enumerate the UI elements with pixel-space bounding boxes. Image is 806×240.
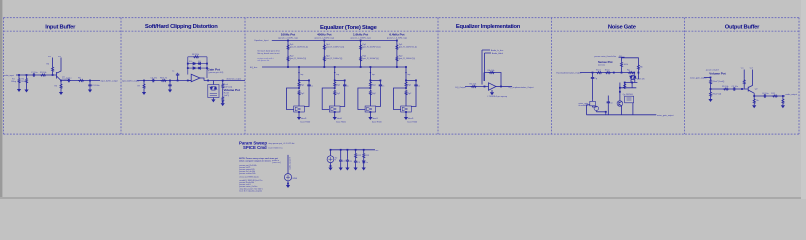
svg-text:distortion_output: distortion_output bbox=[226, 77, 241, 80]
svg-text:SINE: SINE bbox=[292, 178, 297, 180]
svg-text:EQ_Output: EQ_Output bbox=[456, 86, 466, 89]
svg-text:Equalizer (Tone) Stage: Equalizer (Tone) Stage bbox=[320, 25, 378, 31]
svg-text:.tran 0 50m 0 1u: .tran 0 50m 0 1u bbox=[268, 147, 283, 150]
svg-text:R3 10k: R3 10k bbox=[40, 72, 46, 74]
svg-text:audio_input: audio_input bbox=[4, 74, 15, 77]
svg-text:input_buffer_output: input_buffer_output bbox=[101, 79, 119, 82]
svg-text:{Rvol*(1-vol)}: {Rvol*(1-vol)} bbox=[713, 81, 725, 83]
svg-text:Input Buffer: Input Buffer bbox=[45, 24, 76, 30]
svg-text:SPICE Cmd: SPICE Cmd bbox=[243, 145, 267, 150]
svg-text:Audio_In_bus: Audio_In_bus bbox=[491, 49, 503, 52]
svg-text:Gain Pot: Gain Pot bbox=[208, 67, 220, 71]
svg-text:EQ_Implementation_Output: EQ_Implementation_Output bbox=[509, 86, 534, 89]
svg-text:100Hz Pot: 100Hz Pot bbox=[281, 32, 295, 36]
svg-text:Rfb 10k: Rfb 10k bbox=[488, 70, 495, 72]
svg-text:Rg: Rg bbox=[627, 69, 630, 71]
svg-text:1Meg: 1Meg bbox=[11, 81, 16, 83]
svg-text:Sense Pot: Sense Pot bbox=[598, 60, 613, 64]
svg-text:Rin 10k: Rin 10k bbox=[470, 83, 477, 85]
svg-text:100k: 100k bbox=[624, 64, 628, 66]
svg-text:(.wav src): (.wav src) bbox=[272, 162, 281, 164]
svg-text:C3 100n: C3 100n bbox=[92, 85, 100, 87]
svg-text:Dz: Dz bbox=[366, 162, 368, 164]
svg-text:D5 D6: D5 D6 bbox=[639, 78, 646, 80]
svg-text:Equalizer Implementation: Equalizer Implementation bbox=[456, 24, 521, 30]
svg-text:LT1001A 5-pin opamp: LT1001A 5-pin opamp bbox=[488, 95, 508, 98]
svg-text:R8 4.7k: R8 4.7k bbox=[160, 78, 167, 80]
svg-text:{vol*t}: {vol*t} bbox=[224, 94, 230, 97]
svg-text:audio_output: audio_output bbox=[785, 93, 797, 96]
svg-text:noise_gate_output: noise_gate_output bbox=[657, 114, 674, 117]
svg-text:{.param gain 0.8}: {.param gain 0.8} bbox=[208, 72, 224, 74]
svg-text:EQ_Implementation_Output: EQ_Implementation_Output bbox=[557, 71, 582, 74]
svg-text:vcc: vcc bbox=[741, 67, 744, 69]
svg-text:1.6kHz Pot: 1.6kHz Pot bbox=[353, 32, 368, 36]
svg-text:C2 1u: C2 1u bbox=[66, 78, 71, 80]
svg-text:.param sense=50k: .param sense=50k bbox=[239, 173, 256, 175]
svg-text:vcc: vcc bbox=[48, 56, 51, 58]
svg-text:Output Buffer: Output Buffer bbox=[725, 25, 760, 31]
svg-text:input_buffer_output: input_buffer_output bbox=[122, 79, 140, 82]
svg-text:{param_t_400Hz_tap}: {param_t_400Hz_tap} bbox=[315, 36, 335, 39]
svg-text:vcc: vcc bbox=[58, 56, 61, 58]
svg-text:Audio_fdbck: Audio_fdbck bbox=[492, 52, 503, 55]
svg-text:Soft/Hard Clipping Distortion: Soft/Hard Clipping Distortion bbox=[145, 24, 218, 30]
svg-text:{sense}: {sense} bbox=[598, 64, 605, 66]
svg-text:{Rvol*vol}: {Rvol*vol} bbox=[713, 94, 722, 96]
svg-text:flat eq; bands sum to out.: flat eq; bands sum to out. bbox=[257, 52, 280, 55]
svg-text:Equalizer_Input: Equalizer_Input bbox=[255, 39, 269, 42]
svg-text:{param_t_6.4kHz_tap}: {param_t_6.4kHz_tap} bbox=[387, 36, 407, 39]
svg-text:Cg: Cg bbox=[595, 78, 598, 80]
svg-text:Volume Pot: Volume Pot bbox=[709, 71, 725, 75]
svg-text:6.4kHz Pot: 6.4kHz Pot bbox=[389, 32, 404, 36]
svg-text:EQ_bus: EQ_bus bbox=[250, 67, 257, 69]
svg-text:Qg 2N7000: Qg 2N7000 bbox=[623, 94, 634, 96]
svg-text:.meas out RMS v(out): .meas out RMS v(out) bbox=[239, 175, 259, 178]
svg-text:{param_t_1.6kHz_tap}: {param_t_1.6kHz_tap} bbox=[351, 36, 371, 39]
svg-text:Volume Pot: Volume Pot bbox=[224, 88, 240, 92]
svg-text:audio_input_V: audio_input_V bbox=[289, 156, 292, 169]
svg-text:C6 10u: C6 10u bbox=[762, 93, 768, 95]
svg-text:C4 47n: C4 47n bbox=[151, 78, 157, 80]
svg-text:vcc: vcc bbox=[619, 55, 622, 57]
svg-text:C5 10u: C5 10u bbox=[732, 86, 738, 88]
svg-text:400Hz Pot: 400Hz Pot bbox=[317, 32, 331, 36]
svg-text:Cc: Cc bbox=[172, 71, 174, 73]
svg-text:vcc: vcc bbox=[376, 150, 379, 152]
svg-text:Noise Gate: Noise Gate bbox=[608, 25, 637, 31]
svg-text:Rf 220k: Rf 220k bbox=[192, 54, 199, 56]
svg-text:C1 10u: C1 10u bbox=[31, 72, 37, 74]
svg-text:see param list: see param list bbox=[257, 59, 269, 62]
svg-text:value; compare outputs in view: value; compare outputs in viewer. bbox=[239, 160, 272, 163]
svg-text:.four 1k 5 v(audio_output): .four 1k 5 v(audio_output) bbox=[239, 189, 262, 192]
svg-text:R9 10k: R9 10k bbox=[722, 86, 728, 88]
svg-text:.step param pot_t 0 1 0.25 lis: .step param pot_t 0 1 0.25 list bbox=[268, 142, 295, 145]
svg-text:{param_t_100Hz_tap}: {param_t_100Hz_tap} bbox=[278, 36, 298, 39]
svg-text:470k: 470k bbox=[21, 81, 25, 83]
svg-text:.param noise_thresh=5m: .param noise_thresh=5m bbox=[594, 55, 617, 58]
